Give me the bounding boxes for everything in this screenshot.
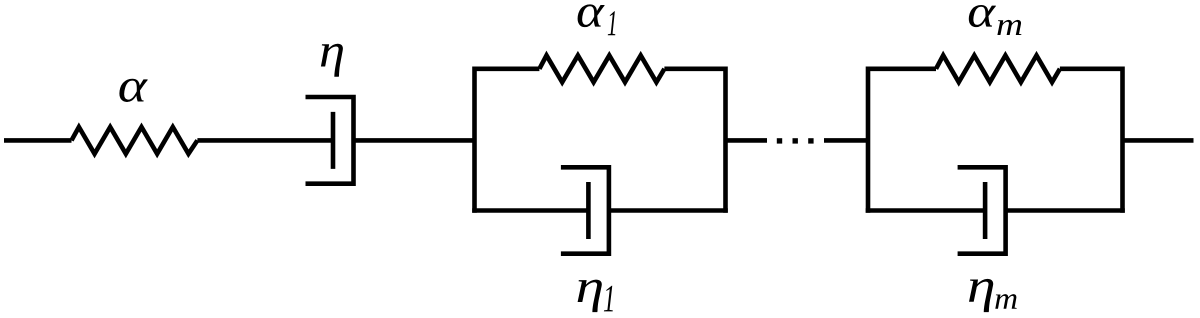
spring alpha: [72, 127, 198, 154]
wire block2 bottom-right: [1006, 208, 1125, 213]
wire spring-to-dashpot: [197, 138, 333, 143]
dashpot eta_m cup: [958, 167, 1006, 253]
dashpot eta1 piston: [586, 182, 591, 239]
wire block2 bottom-left: [866, 208, 985, 213]
spring alpha_m: [936, 55, 1060, 82]
label eta: [321, 44, 343, 77]
wire dashpot-to-block1: [354, 138, 475, 143]
wire block1 bottom-left: [472, 208, 588, 213]
wire left lead: [4, 138, 72, 143]
dashpot eta_m piston: [983, 182, 988, 239]
dashpot eta piston: [331, 112, 336, 169]
label eta1: [578, 280, 602, 313]
wire block2 left side and top-left: [868, 69, 936, 213]
wire right lead: [1123, 138, 1194, 143]
dashpot eta cup: [306, 97, 354, 184]
label eta_m: [969, 279, 993, 312]
label alpha_m: [969, 5, 996, 27]
wire block1 left side and top-left: [475, 69, 540, 213]
node dots ellipsis: [777, 138, 782, 143]
label alpha1: [578, 4, 605, 27]
dashpot eta1 cup: [561, 167, 609, 253]
wire block1 bottom-right: [609, 208, 728, 213]
wire dots-to-block2: [824, 138, 868, 143]
label alpha: [119, 79, 147, 102]
wire block1-to-dots: [726, 138, 768, 143]
wire block1 top-right and right side: [664, 69, 725, 213]
wire block2 top-right and right side: [1060, 69, 1123, 213]
spring alpha1: [539, 55, 664, 82]
